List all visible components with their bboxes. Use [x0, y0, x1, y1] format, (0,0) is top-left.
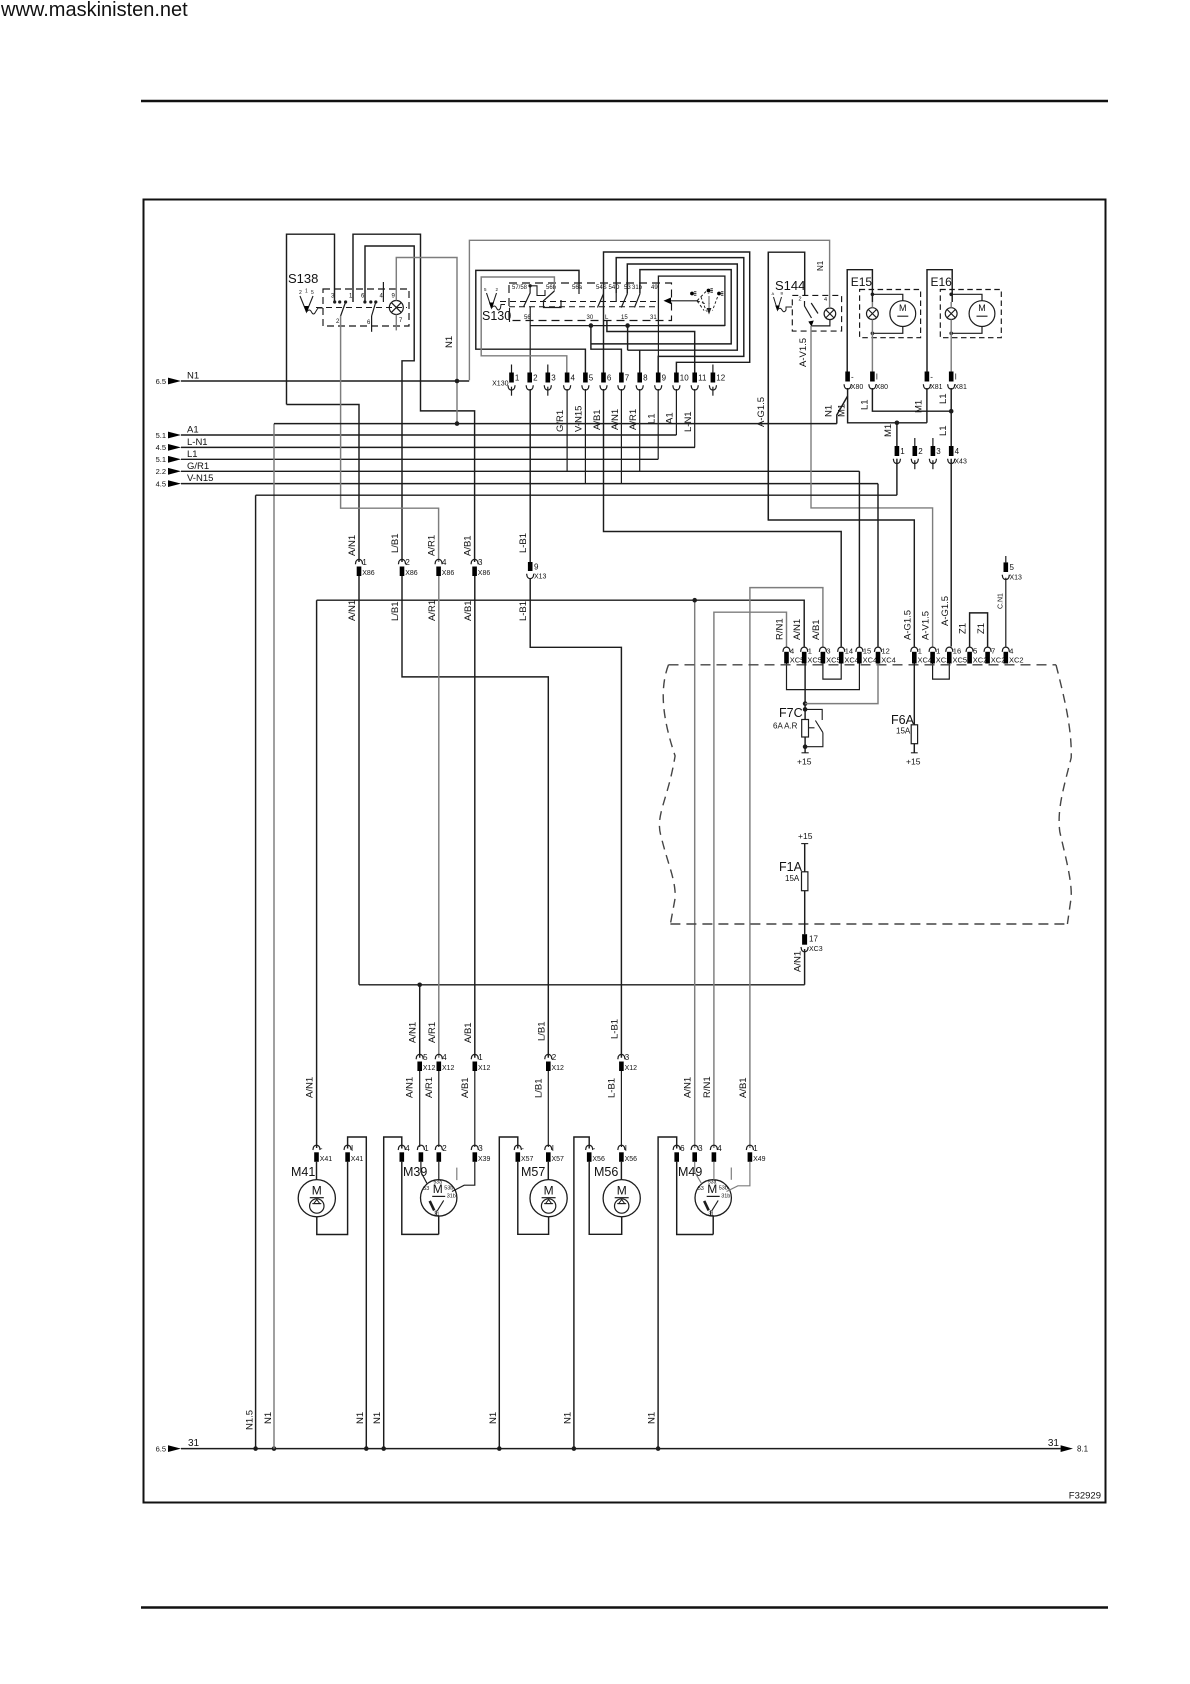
svg-text:A-G1.5: A-G1.5: [902, 610, 913, 640]
lamp unit E15: [847, 270, 872, 372]
svg-text:31b: 31b: [721, 1193, 730, 1199]
svg-text:X80: X80: [876, 384, 889, 391]
wire L-B1 X130-2 to X13-9: [529, 389, 531, 562]
wire staple S1 A1 (54S to X130-10): [604, 252, 750, 373]
wire loop A (S138 left to X86-1 A/N1): [287, 234, 335, 404]
M56 wiring: [620, 1162, 622, 1180]
svg-text:X56: X56: [592, 1156, 605, 1163]
F7C relay branch: [805, 709, 823, 746]
S138 contact 6 lever tail: [371, 316, 373, 332]
svg-text:L1: L1: [938, 425, 949, 436]
svg-text:XC3: XC3: [809, 946, 823, 953]
svg-text:M: M: [899, 303, 907, 313]
svg-text:3: 3: [936, 447, 941, 456]
svg-text:1: 1: [305, 289, 308, 295]
svg-text:14: 14: [845, 647, 853, 656]
svg-text:E15: E15: [851, 275, 873, 289]
N1 bus junction dots: [455, 379, 460, 384]
svg-text:9: 9: [662, 374, 667, 383]
svg-text:3: 3: [625, 1053, 630, 1062]
svg-text:M1: M1: [837, 404, 848, 417]
svg-text:A/B1: A/B1: [592, 409, 603, 430]
S130 contact 54S lever: [598, 294, 604, 308]
svg-text:M49: M49: [678, 1165, 702, 1179]
svg-text:XC2: XC2: [973, 656, 988, 665]
svg-text:5: 5: [1010, 563, 1015, 572]
motor M56: [603, 1180, 640, 1217]
svg-text:X41: X41: [351, 1156, 364, 1163]
svg-text:4: 4: [824, 297, 827, 303]
svg-text:V-N15: V-N15: [574, 406, 585, 432]
S130 contact 53 lever: [621, 294, 627, 308]
svg-text:L1: L1: [647, 413, 658, 424]
S130 contact 57/58 assembly: [528, 284, 531, 287]
S144 solid box: [768, 252, 804, 520]
svg-text:B: B: [781, 291, 784, 296]
svg-text:8: 8: [643, 374, 648, 383]
dashed harness box left wavy edge: [659, 665, 675, 924]
wire L-B1 net (X13-9 to X12-3): [530, 579, 621, 1058]
svg-text:53a: 53a: [708, 1179, 717, 1185]
svg-text:XC5: XC5: [807, 656, 822, 665]
svg-text:56b: 56b: [546, 285, 557, 291]
svg-text:L/B1: L/B1: [390, 533, 401, 553]
wires X130 pins down to feeds: [566, 389, 568, 471]
svg-text:4: 4: [955, 447, 960, 456]
svg-text:L/B1: L/B1: [390, 601, 401, 621]
wire N1 to rail: [273, 424, 275, 1449]
svg-text:1: 1: [515, 374, 520, 383]
wire staple S3 A/R1 (53 to X130-8): [627, 264, 737, 373]
svg-text:X12: X12: [478, 1065, 491, 1072]
svg-text:2: 2: [442, 1144, 447, 1153]
svg-text:A-G1.5: A-G1.5: [756, 397, 767, 427]
svg-text:17: 17: [809, 935, 818, 944]
svg-text:A/R1: A/R1: [427, 1022, 438, 1043]
svg-text:A/N1: A/N1: [347, 535, 358, 556]
connector X12: [416, 1054, 423, 1059]
svg-text:A/N1: A/N1: [408, 1022, 419, 1043]
svg-text:1: 1: [936, 647, 940, 656]
svg-text:16: 16: [953, 647, 961, 656]
svg-text:2: 2: [299, 290, 302, 296]
svg-text:M: M: [978, 303, 986, 313]
diagram frame: [144, 200, 1106, 1503]
svg-text:57/58: 57/58: [512, 285, 528, 291]
svg-text:2: 2: [799, 297, 802, 303]
svg-text:I: I: [552, 1144, 554, 1153]
S130 headlight icons: [690, 292, 694, 296]
svg-text:R/N1: R/N1: [702, 1076, 713, 1098]
wire loop C (S138 contact6 to X86-2): [365, 246, 414, 562]
connector X41: [313, 1145, 320, 1150]
connector X49: [673, 1145, 680, 1150]
wire staple S2 L1 (54D to X130-9): [616, 258, 744, 373]
svg-text:A/R1: A/R1: [628, 409, 639, 430]
wire N1 to X80-1: [274, 423, 837, 425]
motor M41: [298, 1180, 335, 1217]
svg-text:X49: X49: [753, 1156, 766, 1163]
svg-text:3: 3: [478, 1144, 483, 1153]
svg-text:N1: N1: [187, 371, 199, 382]
S144 switch lever: [805, 301, 819, 318]
under-staple XC2-1 to XC5-16: [933, 664, 950, 680]
wire N1 loop around S130 to S144: [469, 240, 829, 380]
svg-text:12: 12: [716, 374, 725, 383]
svg-text:A/R1: A/R1: [424, 1077, 435, 1098]
svg-text:1: 1: [900, 447, 905, 456]
svg-text:www.maskinisten.net: www.maskinisten.net: [0, 0, 188, 21]
S144 actuator arrow: [774, 297, 782, 310]
S130 actuator arrow: [487, 293, 497, 308]
connector X13 pin 5: [1005, 556, 1007, 562]
svg-text:X12: X12: [423, 1065, 436, 1072]
svg-text:M: M: [312, 1184, 322, 1198]
svg-text:A1: A1: [187, 425, 199, 436]
wire A/R1 net (X86-4 to X12-4): [438, 576, 440, 1058]
svg-text:A/B1: A/B1: [738, 1077, 749, 1098]
svg-text:53: 53: [698, 1186, 704, 1192]
svg-text:54D: 54D: [609, 285, 621, 291]
svg-text:X86: X86: [405, 570, 418, 577]
svg-text:3: 3: [478, 558, 483, 567]
S130 dashed enclosure: [509, 283, 672, 321]
wire M1 X80-1 to X81-1 to X43-1: [848, 388, 927, 446]
svg-text:+15: +15: [797, 757, 812, 767]
connector X80: [845, 372, 850, 382]
svg-text:1: 1: [362, 558, 367, 567]
svg-text:XC4: XC4: [844, 656, 859, 665]
S144 dashed enclosure: [792, 295, 841, 331]
svg-text:A-V1.5: A-V1.5: [921, 611, 932, 640]
svg-text:1: 1: [753, 1144, 758, 1153]
svg-text:A/B1: A/B1: [463, 535, 474, 556]
S138 pilot lamp: [389, 301, 403, 315]
svg-text:4: 4: [790, 647, 794, 656]
svg-text:12: 12: [882, 647, 890, 656]
svg-text:X41: X41: [320, 1156, 333, 1163]
svg-text:A/B1: A/B1: [463, 600, 474, 621]
S144 pilot lamp: [824, 308, 836, 320]
top rule: [141, 100, 1108, 103]
svg-text:XC2: XC2: [1009, 656, 1024, 665]
svg-text:53a: 53a: [434, 1179, 443, 1185]
svg-text:X12: X12: [442, 1065, 455, 1072]
svg-text:F7C: F7C: [779, 706, 803, 720]
wire A-V1.5 (S144 to XC2-1): [811, 326, 933, 647]
svg-text:A/B1: A/B1: [463, 1022, 474, 1043]
svg-text:X80: X80: [851, 384, 864, 391]
svg-text:Z1: Z1: [958, 623, 969, 634]
svg-text:5: 5: [311, 290, 314, 296]
wire G/R1 to XC4-15: [858, 471, 860, 646]
wire A/B1 X130-6 to XC4-14: [604, 389, 842, 647]
svg-text:XC4: XC4: [863, 656, 878, 665]
svg-text:XC5: XC5: [826, 656, 841, 665]
svg-text:A/N1: A/N1: [793, 951, 804, 972]
M57 wiring: [547, 1162, 549, 1180]
connector X39: [398, 1145, 405, 1150]
svg-text:A/N1: A/N1: [610, 409, 621, 430]
svg-text:+15: +15: [906, 757, 921, 767]
svg-text:V-N15: V-N15: [187, 473, 213, 484]
svg-text:A/N1: A/N1: [347, 600, 358, 621]
wire L/B1 net (X86-2 to X12-2): [402, 576, 548, 1058]
svg-text:A/N1: A/N1: [792, 619, 803, 640]
svg-text:X12: X12: [552, 1065, 565, 1072]
wire loop B (S138 contact1 to X86-3): [353, 234, 475, 562]
wire V-N15 upper (56a to X130-5): [476, 270, 586, 372]
svg-text:31: 31: [1048, 1438, 1060, 1449]
svg-text:L-N1: L-N1: [187, 437, 208, 448]
S138 switch levers: [341, 302, 346, 316]
svg-text:L1: L1: [187, 449, 198, 460]
svg-text:M: M: [617, 1184, 627, 1198]
svg-text:4: 4: [442, 558, 447, 567]
svg-text:A/B1: A/B1: [460, 1077, 471, 1098]
svg-text:8.1: 8.1: [1077, 1445, 1089, 1454]
S138 coupling dashed line: [316, 307, 407, 309]
svg-text:XC2: XC2: [991, 656, 1006, 665]
svg-text:A/R1: A/R1: [427, 600, 438, 621]
svg-text:M57: M57: [521, 1165, 545, 1179]
svg-text:2.2: 2.2: [156, 467, 166, 476]
wire N1.5 to rail: [255, 495, 257, 1448]
S130 contact 56/56b step lever: [544, 291, 562, 308]
lamp unit E16: [927, 270, 952, 372]
svg-text:15A: 15A: [785, 874, 800, 883]
svg-text:2: 2: [533, 374, 538, 383]
svg-text:7: 7: [625, 374, 630, 383]
S130 contact 31b lever: [635, 294, 640, 308]
svg-text:4: 4: [571, 374, 576, 383]
svg-text:L-B1: L-B1: [606, 1078, 617, 1098]
svg-text:2: 2: [552, 1053, 557, 1062]
svg-text:4.5: 4.5: [156, 479, 166, 488]
connector X86: [355, 559, 362, 564]
svg-text:X86: X86: [442, 570, 455, 577]
svg-text:I: I: [955, 373, 957, 382]
svg-text:N1: N1: [647, 1412, 658, 1424]
S130 coupling dashed lines: [500, 301, 660, 303]
svg-text:2: 2: [405, 558, 410, 567]
svg-text:49: 49: [651, 285, 658, 291]
svg-text:4: 4: [405, 1144, 410, 1153]
svg-text:6: 6: [680, 1144, 685, 1153]
svg-text:10: 10: [680, 374, 689, 383]
svg-text:XC4: XC4: [918, 656, 933, 665]
S138 dashed enclosure: [323, 289, 409, 326]
svg-text:1: 1: [808, 647, 812, 656]
S130 inner box bottom line with contacts 30 15: [530, 325, 725, 327]
motor M57: [530, 1180, 567, 1217]
svg-text:N1: N1: [824, 405, 835, 417]
svg-text:L-B1: L-B1: [518, 533, 529, 553]
wire contact2 to X86-4 A/R1: [341, 316, 439, 562]
svg-text:31b: 31b: [447, 1193, 456, 1199]
svg-text:7: 7: [991, 647, 995, 656]
svg-text:N1: N1: [562, 1412, 573, 1424]
connector X57: [514, 1145, 521, 1150]
svg-text:+15: +15: [798, 831, 813, 841]
svg-text:53: 53: [423, 1186, 429, 1192]
svg-text:6.5: 6.5: [156, 1445, 166, 1454]
svg-text:X13: X13: [1010, 575, 1023, 582]
svg-text:53b: 53b: [719, 1185, 728, 1191]
svg-text:3: 3: [551, 374, 556, 383]
motor M39: [421, 1180, 457, 1216]
svg-text:X56: X56: [625, 1156, 638, 1163]
svg-text:X57: X57: [552, 1156, 565, 1163]
svg-text:6A A.R: 6A A.R: [773, 722, 798, 731]
svg-text:G/R1: G/R1: [187, 461, 209, 472]
svg-text:31b: 31b: [632, 285, 643, 291]
svg-text:S130: S130: [482, 309, 511, 323]
wire A/N1 net (X86-1 to XC5-1 / M41 / M49-3 / XC3): [317, 576, 805, 1148]
svg-text:X12: X12: [625, 1065, 638, 1072]
svg-text:30: 30: [587, 315, 594, 321]
svg-text:A/N1: A/N1: [683, 1077, 694, 1098]
svg-text:XC4: XC4: [881, 656, 896, 665]
svg-text:L/B1: L/B1: [536, 1021, 547, 1041]
svg-text:-: -: [521, 1144, 524, 1153]
svg-text:X39: X39: [478, 1156, 491, 1163]
svg-text:-: -: [593, 1144, 596, 1153]
svg-text:M: M: [544, 1184, 554, 1198]
svg-text:S138: S138: [288, 271, 318, 286]
svg-text:A1: A1: [665, 412, 676, 424]
svg-text:54S: 54S: [596, 285, 607, 291]
svg-text:-: -: [930, 373, 933, 382]
svg-text:56a: 56a: [572, 285, 583, 291]
wire loop E (S138 lamp to N1): [396, 258, 457, 424]
svg-text:A/N1: A/N1: [305, 1077, 316, 1098]
wire G/R1 upper (56b to X130-4): [481, 277, 567, 373]
wire L-N1 contactL to X130-11: [607, 321, 695, 373]
svg-text:N1: N1: [263, 1412, 274, 1424]
svg-text:15: 15: [863, 647, 871, 656]
S130 contact 54D lead: [615, 294, 617, 302]
connector X43: [895, 446, 900, 456]
svg-text:A/N1: A/N1: [405, 1077, 416, 1098]
S138 contact dots: [333, 300, 336, 303]
connector XC3 pin 17: [802, 934, 807, 945]
svg-text:53b: 53b: [444, 1185, 453, 1191]
svg-text:X81: X81: [930, 384, 943, 391]
svg-text:N1: N1: [444, 336, 455, 348]
S138 actuator arrow: [300, 296, 313, 312]
svg-text:X13: X13: [534, 574, 547, 581]
dashed harness box top: [669, 664, 1057, 666]
svg-text:X86: X86: [478, 570, 491, 577]
svg-text:A-V1.5: A-V1.5: [798, 338, 809, 367]
svg-text:A/B1: A/B1: [811, 619, 822, 640]
svg-text:15: 15: [621, 315, 628, 321]
wire A-G1.5 (S144 to XC4-1): [768, 252, 914, 646]
svg-text:X43: X43: [954, 459, 967, 466]
wire A/N1 contact30 to X130-7: [591, 326, 622, 373]
svg-text:5.1: 5.1: [156, 455, 166, 464]
wire R/N1 (XC5-4 to M49-4): [714, 612, 787, 1148]
svg-text:N1: N1: [355, 1412, 366, 1424]
wire M1 X43-1 down to M1 line: [896, 459, 898, 496]
wire V-N15 to XC4-12: [877, 484, 879, 647]
svg-text:L1: L1: [860, 399, 871, 410]
svg-text:X86: X86: [362, 570, 375, 577]
motor M49: [695, 1180, 731, 1216]
svg-text:G/R1: G/R1: [555, 410, 566, 432]
M49 wiring: [695, 1162, 702, 1184]
svg-text:L/B1: L/B1: [533, 1078, 544, 1098]
svg-text:F1A: F1A: [779, 860, 803, 874]
S130 park arrow: [664, 298, 672, 305]
svg-text:L1: L1: [938, 393, 949, 404]
wire M1 long line: [256, 494, 897, 496]
svg-text:31: 31: [188, 1438, 200, 1449]
svg-text:C.N1: C.N1: [997, 593, 1004, 609]
dashed harness box bottom: [670, 923, 1067, 925]
svg-text:X81: X81: [954, 384, 967, 391]
dashed harness box right wavy edge: [1056, 665, 1071, 924]
wire C.N1 (X13-5 to XC2-4): [1005, 578, 1007, 647]
svg-text:A-G1.5: A-G1.5: [940, 596, 951, 626]
wire L1 X80-2 to X81-2: [872, 388, 951, 411]
svg-text:X130: X130: [492, 381, 508, 388]
wire L1/A-G1.5 X81-2 to XC5-16: [950, 388, 952, 446]
svg-text:2: 2: [918, 447, 923, 456]
S144 lamp wires: [829, 295, 831, 308]
wire A/B1 (XC5-3 staple to M49-1): [750, 588, 823, 1148]
svg-text:9: 9: [534, 563, 539, 572]
svg-text:1: 1: [424, 1144, 429, 1153]
svg-text:5: 5: [973, 647, 977, 656]
svg-text:5: 5: [589, 374, 594, 383]
svg-text:N1: N1: [488, 1412, 499, 1424]
svg-text:6.5: 6.5: [156, 377, 166, 386]
svg-text:3: 3: [698, 1144, 703, 1153]
svg-text:N1.5: N1.5: [245, 1410, 256, 1430]
svg-text:1: 1: [918, 647, 922, 656]
connector X81: [925, 372, 930, 382]
wire A/B1 net (X86-3 to X12-1): [474, 576, 476, 1058]
svg-text:-: -: [320, 1144, 323, 1153]
connector row XC5 XC4 XC2: [783, 647, 790, 652]
svg-text:1: 1: [478, 1053, 483, 1062]
svg-text:X57: X57: [521, 1156, 534, 1163]
svg-text:3: 3: [826, 647, 830, 656]
svg-text:5.1: 5.1: [156, 431, 166, 440]
under-staple XC5-3 to XC4-14: [823, 664, 841, 680]
svg-text:-: -: [851, 373, 854, 382]
svg-text:M1: M1: [883, 424, 894, 437]
svg-text:N1: N1: [372, 1412, 383, 1424]
svg-text:15A: 15A: [896, 727, 911, 736]
svg-text:L-B1: L-B1: [518, 601, 529, 621]
wires X12 to motors: [419, 1071, 421, 1147]
S138 contact 4 stub: [382, 282, 384, 302]
S130 park pointer: [708, 296, 710, 308]
svg-text:4: 4: [717, 1144, 722, 1153]
svg-text:4: 4: [442, 1053, 447, 1062]
svg-text:6: 6: [607, 374, 612, 383]
wire XC4-12 to F7C: [805, 664, 878, 704]
svg-text:L-B1: L-B1: [609, 1019, 620, 1039]
wire Z1 staple (XC2-5 to XC2-7): [970, 613, 988, 647]
svg-text:A: A: [772, 291, 775, 296]
connector X13 pin 9: [528, 562, 533, 571]
wire staple S4 (31b to contact30): [591, 270, 731, 344]
svg-text:I: I: [625, 1144, 627, 1153]
